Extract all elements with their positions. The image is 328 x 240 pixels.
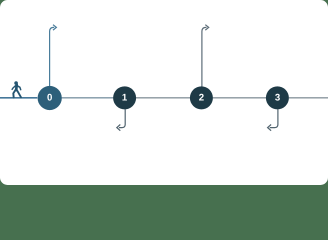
node 1	[113, 86, 136, 109]
svg-text:2: 2	[199, 92, 204, 103]
node 0	[38, 86, 62, 110]
node 2	[190, 86, 213, 109]
walking person icon	[12, 81, 21, 97]
wire: timeline segment node 2 to node 3	[213, 97, 266, 99]
wire: timeline segment left of node 0	[0, 97, 37, 99]
arrow up-right from node 2	[202, 25, 209, 87]
svg-text:1: 1	[122, 92, 128, 103]
wire: timeline segment node 0 to node 1	[62, 97, 114, 99]
wire: timeline segment node 1 to node 2	[136, 97, 190, 99]
wire: timeline segment right of node 3	[289, 97, 328, 99]
arrow down-left from node 3	[268, 109, 278, 131]
arrow up-right from node 0	[50, 25, 57, 86]
arrow down-left from node 1	[117, 109, 125, 131]
white card background	[0, 0, 328, 185]
node 3	[266, 86, 289, 109]
svg-text:0: 0	[47, 92, 52, 103]
svg-text:3: 3	[275, 92, 280, 103]
